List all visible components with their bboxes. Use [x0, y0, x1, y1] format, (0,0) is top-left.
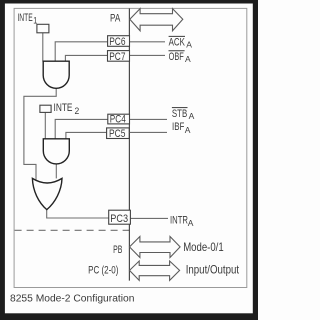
svg-text:PB: PB	[113, 243, 122, 255]
svg-text:OBF: OBF	[169, 51, 184, 63]
svg-text:INTE: INTE	[54, 102, 73, 114]
svg-text:PC7: PC7	[109, 51, 125, 63]
svg-text:A: A	[186, 39, 192, 49]
svg-text:PC6: PC6	[109, 36, 125, 48]
svg-text:8255 Mode-2 Configuration: 8255 Mode-2 Configuration	[10, 294, 135, 305]
svg-text:A: A	[185, 125, 191, 135]
svg-text:INTE: INTE	[17, 11, 32, 23]
svg-text:Mode-0/1: Mode-0/1	[183, 241, 224, 254]
svg-text:STB: STB	[172, 108, 187, 121]
svg-text:PC (2-0): PC (2-0)	[88, 264, 118, 277]
svg-text:1: 1	[33, 16, 37, 26]
svg-text:A: A	[185, 54, 191, 64]
svg-text:A: A	[189, 111, 195, 121]
svg-text:A: A	[188, 218, 194, 228]
svg-text:PC5: PC5	[109, 128, 126, 140]
svg-text:INTR: INTR	[170, 214, 188, 227]
svg-text:IBF: IBF	[172, 121, 184, 134]
svg-text:2: 2	[75, 105, 80, 116]
svg-text:PC3: PC3	[110, 213, 128, 225]
svg-text:PC4: PC4	[110, 114, 126, 126]
svg-text:Input/Output: Input/Output	[186, 264, 239, 277]
svg-text:ACK: ACK	[169, 36, 186, 49]
svg-text:PA: PA	[110, 12, 121, 24]
